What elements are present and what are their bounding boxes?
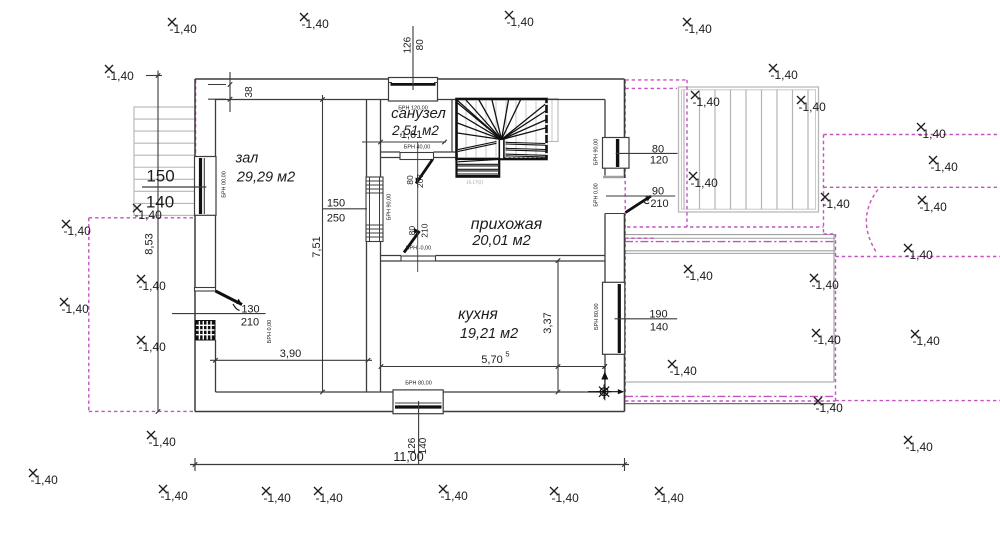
svg-text:140: 140 (650, 322, 668, 334)
elevation marker -1,40 #22 (797, 96, 826, 114)
svg-text:-1,40: -1,40 (149, 435, 177, 449)
dim 126/80 top flue (402, 26, 425, 90)
dashed upper-floor outline left (89, 80, 196, 411)
svg-text:16,17(2): 16,17(2) (466, 180, 483, 185)
svg-text:-1,40: -1,40 (693, 95, 721, 109)
lintel bar right door (603, 176, 624, 179)
elevation marker -1,40 #31 (812, 329, 841, 347)
winder staircase box (457, 99, 547, 159)
dim 8,53 left (144, 71, 163, 414)
svg-text:зал: зал (235, 151, 259, 167)
hatched block left wall (196, 321, 216, 341)
svg-text:-1,40: -1,40 (906, 248, 934, 262)
dim 126/140 bottom window (407, 401, 429, 465)
elevation marker -1,40 #12 (147, 431, 176, 449)
label 150/140 left window (142, 167, 206, 212)
door D3 80x210 hallway-kitchen (401, 228, 436, 261)
elevation marker -1,40 #26 (929, 156, 958, 174)
label 80/120 right window (616, 144, 678, 167)
elevation marker -1,40 #9 (60, 298, 89, 316)
elevation marker -1,40 #19 (655, 487, 684, 505)
note BRN 80,00 right win (594, 303, 600, 330)
svg-text:3,90: 3,90 (280, 348, 301, 360)
winder stair treads (458, 100, 548, 157)
room label hall (235, 151, 259, 167)
svg-text:3,37: 3,37 (542, 312, 554, 333)
note BRN 80,00 kitchen (405, 381, 432, 387)
note BRN 0,00 left door (267, 320, 273, 343)
svg-text:БРН 40,00: БРН 40,00 (404, 145, 431, 151)
svg-text:-1,40: -1,40 (264, 491, 292, 505)
door D1 130x210 left wall (195, 288, 243, 311)
entry arrow and benchmark symbol (588, 364, 624, 400)
svg-text:-1,40: -1,40 (316, 491, 344, 505)
svg-text:-1,40: -1,40 (64, 224, 92, 238)
note BRN -0,00 (406, 246, 431, 252)
svg-text:-1,40: -1,40 (135, 208, 163, 222)
bathroom walls (381, 100, 457, 158)
landing strip right of stair (547, 99, 559, 142)
svg-text:207: 207 (415, 174, 425, 188)
svg-text:-1,40: -1,40 (107, 69, 135, 83)
window W5 bottom wall (393, 390, 443, 414)
door sill line right door (605, 213, 625, 215)
window/flue on top wall (389, 78, 438, 102)
room label bathroom (391, 105, 446, 122)
svg-text:7,51: 7,51 (311, 236, 323, 257)
door D4 90x210 right wall (626, 196, 652, 213)
svg-text:-1,40: -1,40 (814, 333, 842, 347)
svg-text:-1,40: -1,40 (919, 127, 947, 141)
short dashed seg at porch top (625, 237, 656, 239)
svg-text:БРН 90,00: БРН 90,00 (387, 194, 393, 221)
svg-text:-1,40: -1,40 (913, 334, 941, 348)
svg-text:кухня: кухня (458, 306, 498, 323)
elevation marker -1,40 #13 (29, 469, 58, 487)
note BRN 00,00 left win (222, 171, 228, 198)
elevation marker -1,40 #14 (159, 485, 188, 503)
svg-text:БРН 0,00: БРН 0,00 (594, 183, 600, 206)
elevation marker -1,40 #21 (691, 91, 720, 109)
svg-text:250: 250 (327, 213, 345, 225)
elevation marker -1,40 #33 (668, 360, 697, 378)
svg-text:210: 210 (419, 223, 429, 237)
svg-text:80: 80 (405, 175, 415, 185)
dim 1,61 line bathroom (362, 140, 447, 145)
porch outline (bottom right) (625, 235, 836, 404)
svg-text:-1,40: -1,40 (906, 440, 934, 454)
svg-text:80: 80 (415, 39, 426, 51)
stair tiny note (466, 180, 483, 185)
svg-text:-1,40: -1,40 (552, 491, 580, 505)
svg-text:-1,40: -1,40 (507, 15, 535, 29)
svg-text:-1,40: -1,40 (799, 100, 827, 114)
svg-text:-1,40: -1,40 (686, 269, 714, 283)
elevation marker -1,40 #25 (917, 123, 946, 141)
svg-text:-1,40: -1,40 (771, 68, 799, 82)
elevation marker -1,40 #16 (314, 487, 343, 505)
elevation marker -1,40 #6 (105, 65, 134, 83)
elevation marker -1,40 #29 (684, 265, 713, 283)
elevation marker -1,40 #5 (769, 64, 798, 82)
dim 11,00 bottom (190, 450, 629, 471)
exterior entrance steps (left) (134, 107, 195, 215)
dash-dot porch centreline lower (625, 395, 836, 397)
elevation marker -1,40 #2 (300, 13, 329, 31)
svg-text:-1,40: -1,40 (920, 200, 948, 214)
dim 3,90 hall (210, 348, 372, 363)
svg-text:-1,40: -1,40 (441, 489, 469, 503)
elevation marker -1,40 #28 (904, 244, 933, 262)
room area bathroom (391, 123, 439, 138)
dim 38 wall thickness (208, 72, 255, 112)
svg-text:-1,40: -1,40 (170, 22, 198, 36)
elevation marker -1,40 #7 (133, 204, 162, 222)
svg-text:БРН -0,00: БРН -0,00 (406, 246, 431, 252)
elevation marker -1,40 #15 (262, 487, 291, 505)
svg-text:38: 38 (244, 86, 255, 98)
lower stair flight and cut line (457, 158, 547, 177)
svg-text:БРН 80,00: БРН 80,00 (594, 303, 600, 330)
window W1 150x140 left wall (195, 157, 217, 216)
elevation marker -1,40 #32 (911, 330, 940, 348)
elevation marker -1,40 #1 (168, 18, 197, 36)
svg-text:5: 5 (505, 350, 509, 359)
svg-text:80: 80 (407, 226, 417, 236)
svg-text:-1,40: -1,40 (823, 197, 851, 211)
svg-text:БРН 0,00: БРН 0,00 (267, 320, 273, 343)
interior wall hallway/kitchen (381, 256, 606, 262)
elevation marker -1,40 #3 (505, 11, 534, 29)
room area hallway (471, 233, 530, 249)
svg-text:БРН 00,00: БРН 00,00 (222, 171, 228, 198)
window W3 80x120 right wall (603, 138, 630, 169)
svg-text:-1,40: -1,40 (812, 278, 840, 292)
svg-text:-1,40: -1,40 (161, 489, 189, 503)
svg-text:-1,40: -1,40 (139, 279, 167, 293)
room label hallway (471, 216, 543, 233)
elevation marker -1,40 #11 (137, 336, 166, 354)
svg-text:210: 210 (650, 198, 668, 210)
elevation marker -1,40 #23 (689, 172, 718, 190)
svg-text:-1,40: -1,40 (691, 176, 719, 190)
elevation marker -1,40 #8 (62, 220, 91, 238)
note BRN 120,00 (398, 106, 428, 112)
dim text 1,61 (401, 129, 422, 141)
label 80/207 bathroom door (405, 142, 425, 272)
svg-text:БРН 80,00: БРН 80,00 (405, 381, 432, 387)
room area kitchen (460, 326, 518, 342)
elevation marker -1,40 #10 (137, 275, 166, 293)
elevation marker -1,40 #20 (904, 436, 933, 454)
svg-text:126: 126 (402, 36, 413, 53)
svg-text:-1,40: -1,40 (816, 401, 844, 415)
elevation marker -1,40 #18 (550, 487, 579, 505)
room area hall (236, 170, 295, 186)
svg-text:140: 140 (418, 437, 429, 454)
svg-text:-1,40: -1,40 (931, 160, 959, 174)
svg-text:-1,40: -1,40 (139, 340, 167, 354)
svg-text:-1,40: -1,40 (670, 364, 698, 378)
svg-text:20,01 м2: 20,01 м2 (471, 233, 530, 249)
svg-text:-1,40: -1,40 (62, 302, 90, 316)
dashed outline right side (625, 135, 1000, 402)
svg-text:19,21 м2: 19,21 м2 (460, 326, 518, 342)
dash-dot porch centreline upper (625, 241, 836, 243)
dashed door swing arc (right) (866, 190, 878, 253)
wooden deck (top right) with plank lines (679, 87, 819, 212)
note BRN 0,00 right door (594, 183, 600, 206)
svg-text:5,70: 5,70 (481, 354, 502, 366)
svg-text:прихожая: прихожая (471, 216, 543, 233)
dim 3,37 kitchen (542, 258, 560, 394)
svg-text:БРН 120,00: БРН 120,00 (398, 106, 428, 112)
note BRN 90,00 right win (594, 139, 600, 166)
elevation marker -1,40 #27 (918, 196, 947, 214)
door D2 80x207 bathroom (400, 153, 434, 184)
elevation marker -1,40 #24 (821, 193, 850, 211)
svg-text:-1,40: -1,40 (657, 491, 685, 505)
label 190/140 kitchen window (615, 309, 678, 334)
svg-text:120: 120 (650, 155, 668, 167)
note BRN 40,00 (404, 145, 431, 151)
svg-text:150: 150 (327, 198, 345, 210)
svg-text:150: 150 (146, 167, 174, 186)
elevation marker -1,40 #4 (683, 18, 712, 36)
svg-text:БРН 90,00: БРН 90,00 (594, 139, 600, 166)
svg-text:8,53: 8,53 (144, 233, 156, 254)
elevation marker -1,40 #17 (439, 485, 468, 503)
label 130/210 left door (172, 304, 266, 329)
interior window W6 150x250 (366, 177, 383, 242)
svg-text:-1,40: -1,40 (31, 473, 59, 487)
dashed upper-floor outline around deck (625, 80, 823, 401)
elevation marker -1,40 #30 (810, 274, 839, 292)
svg-text:210: 210 (241, 317, 259, 329)
svg-text:2,51 м2: 2,51 м2 (391, 123, 439, 138)
note BRN 90,00 int win (387, 194, 393, 221)
dim 5,70 kitchen (379, 350, 607, 369)
svg-text:-1,40: -1,40 (685, 22, 713, 36)
label 80/210 hallway door (407, 223, 429, 237)
elevation marker -1,40 #34 (814, 397, 843, 415)
svg-text:29,29 м2: 29,29 м2 (236, 170, 295, 186)
label 150/250 interior window (322, 198, 367, 225)
room label kitchen (458, 306, 498, 323)
exterior walls of house (195, 79, 625, 412)
window W4 190x140 right wall (603, 282, 625, 354)
label 90/210 right door (606, 186, 675, 211)
interior wall hall/hallway-kitchen (367, 100, 381, 393)
svg-text:126: 126 (407, 437, 418, 454)
svg-text:-1,40: -1,40 (302, 17, 330, 31)
dim 7,51 vertical (311, 95, 325, 394)
